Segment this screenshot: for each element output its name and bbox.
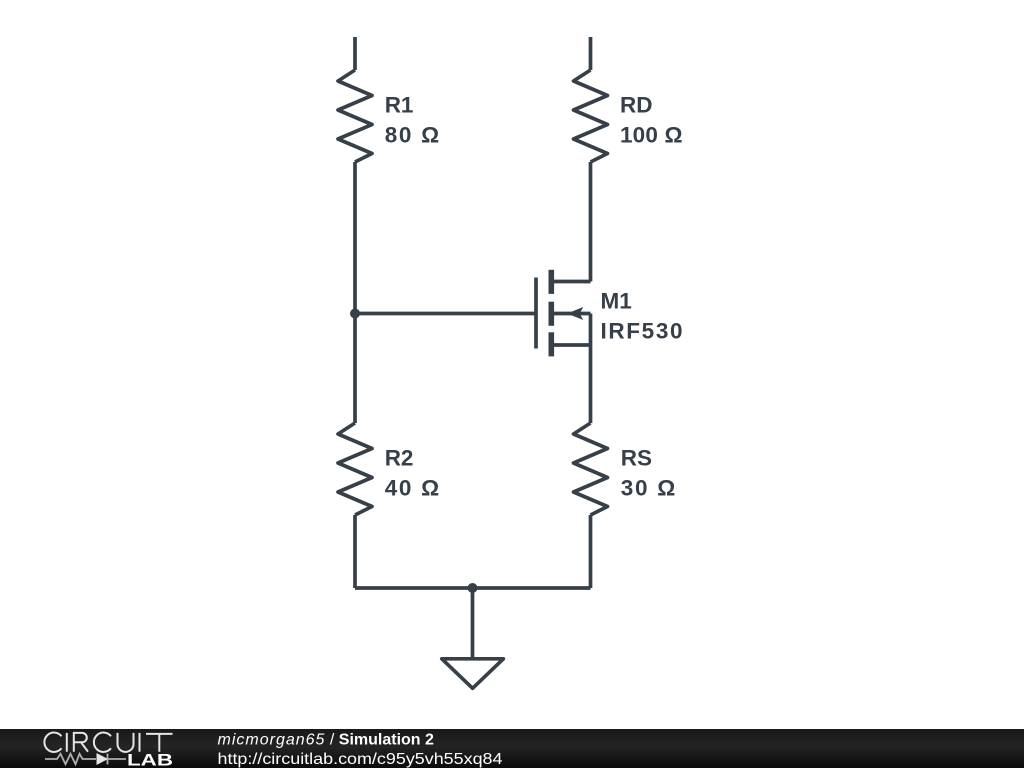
logo letter I bbox=[139, 733, 141, 752]
svg-text:micmorgan65 / Simulation 2: micmorgan65 / Simulation 2 bbox=[218, 732, 435, 749]
svg-text:R2: R2 bbox=[385, 446, 414, 471]
resistor RS bbox=[574, 423, 608, 515]
resistor R2 bbox=[338, 423, 372, 515]
logo letter U bbox=[118, 733, 134, 752]
ground rail junction dot bbox=[468, 583, 478, 593]
logo diode triangle bbox=[97, 753, 109, 765]
svg-text:100 Ω: 100 Ω bbox=[620, 123, 683, 148]
svg-text:R1: R1 bbox=[385, 92, 414, 117]
svg-text:LAB: LAB bbox=[127, 751, 173, 768]
logo letter I bbox=[66, 733, 68, 752]
resistor R1 bbox=[338, 70, 372, 162]
ground bbox=[442, 659, 504, 689]
svg-text:RS: RS bbox=[621, 446, 652, 471]
wire ground stem bbox=[471, 588, 475, 659]
wire RD bottom to M1 drain bbox=[589, 162, 593, 282]
logo letter C bbox=[44, 733, 61, 752]
M1 source lead bbox=[554, 343, 591, 347]
wire top lead of RD bbox=[589, 37, 593, 70]
M1 bulk arrow bbox=[567, 307, 583, 320]
svg-text:M1: M1 bbox=[601, 288, 632, 313]
wire gate: node A to M1 gate bbox=[355, 312, 536, 316]
M1 channel bar body bbox=[548, 302, 554, 326]
CircuitLab logo wordmark CIRCUIT bbox=[44, 733, 172, 752]
wire M1 source/bulk down to RS top bbox=[589, 314, 593, 424]
node A junction dot bbox=[350, 309, 360, 319]
M1 gate bar bbox=[534, 278, 538, 349]
M1 drain lead bbox=[554, 280, 591, 284]
logo resistor-diode squiggle bbox=[45, 754, 126, 765]
M1 bulk lead bbox=[554, 312, 591, 316]
M1 channel bar source bbox=[548, 332, 554, 356]
svg-text:IRF530: IRF530 bbox=[601, 319, 683, 344]
wire node A to R2 top bbox=[353, 314, 357, 424]
logo letter R bbox=[74, 733, 88, 752]
svg-text:http://circuitlab.com/c95y5vh5: http://circuitlab.com/c95y5vh55xq84 bbox=[218, 751, 503, 768]
wire R1 bottom to node A bbox=[353, 162, 357, 314]
wire top lead of R1 bbox=[353, 37, 357, 70]
wire R2 bottom to ground rail bbox=[353, 515, 357, 588]
wire ground rail bbox=[355, 586, 591, 590]
svg-text:RD: RD bbox=[620, 92, 653, 117]
M1 channel bar drain bbox=[548, 270, 554, 294]
transistor M1 bbox=[536, 270, 591, 357]
logo letter T bbox=[146, 734, 173, 752]
wire RS bottom to ground rail bbox=[589, 515, 593, 588]
resistor RD bbox=[574, 70, 608, 162]
logo letter C bbox=[94, 733, 111, 752]
